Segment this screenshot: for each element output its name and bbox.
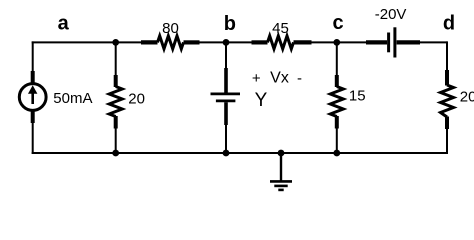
capacitor Y [211,68,241,125]
node junction dot a-top [112,39,119,46]
svg-text:80: 80 [162,20,179,37]
svg-text:b: b [224,13,236,35]
node junction dot a-bottom [112,150,119,157]
ground [270,153,292,190]
node junction dot c-bottom [333,150,340,157]
svg-text:15: 15 [349,88,366,105]
wire left branch upper [32,41,34,72]
wire left branch lower [32,122,34,154]
wire top rail b segment [200,41,252,43]
wire branch b lower [225,124,227,153]
wire top rail c segment [312,41,367,43]
svg-text:20: 20 [460,88,474,105]
svg-text:a: a [58,12,70,34]
wire branch c lower [336,128,338,154]
resistor 45 [252,36,312,49]
resistor 20 (node a) [109,75,122,129]
svg-text:-: - [297,70,302,87]
wire branch d upper [446,41,448,71]
node junction dot c-top [333,39,340,46]
svg-text:50mA: 50mA [53,90,92,107]
svg-text:d: d [443,13,455,35]
svg-text:Y: Y [255,90,268,111]
wire top rail d segment [420,41,447,43]
wire branch a upper [115,42,117,76]
svg-text:-20V: -20V [375,6,407,23]
wire branch d lower [446,128,448,154]
node junction dot ground [278,150,285,157]
svg-text:+: + [252,70,261,87]
svg-text:c: c [332,12,343,34]
resistor 20 (node d) [441,70,454,129]
wire branch b upper [225,42,227,69]
resistor 80 [141,36,200,49]
wire top rail left (a segment) [32,41,141,43]
svg-text:45: 45 [272,20,289,37]
svg-text:20: 20 [128,90,145,107]
wire branch c upper [336,42,338,76]
resistor 15 [330,75,343,129]
current source I1 50mA [19,71,46,123]
node junction dot b-top [223,39,230,46]
node junction dot b-bottom [223,150,230,157]
wire branch a lower [115,128,117,154]
battery -20V [366,27,420,57]
wire bottom rail [32,152,448,154]
svg-text:Vx: Vx [270,70,289,87]
